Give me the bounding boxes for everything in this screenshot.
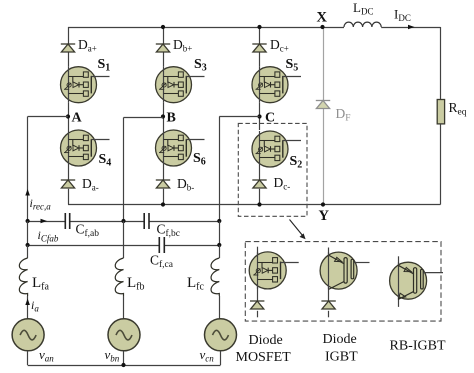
- arrow i_Cfab: [41, 219, 48, 224]
- node A: [66, 114, 70, 118]
- wire phase-b branch row1 to coil: [123, 221, 125, 258]
- svg-text:B: B: [167, 111, 176, 126]
- wire Lfa to source van: [27, 296, 29, 319]
- diode Dc-: [252, 180, 266, 188]
- arrow from S2 box to legend: [290, 220, 304, 237]
- transistor S2 (diode MOSFET): [252, 131, 301, 167]
- legend diode MOSFET symbol: [257, 247, 259, 301]
- node Y: [321, 202, 325, 206]
- source vbn: [108, 319, 140, 351]
- svg-text:MOSFET: MOSFET: [236, 350, 292, 365]
- transistor S5 (diode MOSFET): [252, 67, 301, 103]
- wire capacitor row 2: [28, 245, 160, 247]
- junction dot bottom rail at vbn: [121, 363, 125, 367]
- transistor S4 (diode MOSFET): [61, 130, 110, 166]
- wire node C to filter branch c: [219, 116, 259, 118]
- node X: [320, 25, 324, 29]
- source vcn: [205, 319, 237, 351]
- wire top DC rail (right of L_DC): [381, 27, 440, 29]
- source van: [12, 319, 44, 351]
- wire node B to filter branch b: [124, 117, 164, 119]
- wire phase-b leg: [163, 27, 165, 44]
- diode Db-: [156, 180, 170, 188]
- svg-text:X: X: [317, 10, 328, 26]
- wire bottom DC rail: [68, 204, 441, 206]
- wire bottom source rail: [28, 365, 221, 367]
- diode DF: [316, 101, 330, 109]
- node B: [161, 114, 165, 118]
- diode Da+: [61, 44, 75, 52]
- wire freewheel branch X to Y (gray): [323, 27, 325, 101]
- junction dot bottom rail at B: [161, 202, 165, 206]
- wire phase-a branch row1 to row2: [27, 221, 29, 245]
- wire phase-c branch row1 to row2: [219, 221, 221, 245]
- wire source bottoms to bottom rail: [27, 351, 29, 365]
- wire Lfb to source vbn: [123, 296, 125, 319]
- junction dots row 2: [26, 243, 30, 247]
- wire right side vertical (top): [440, 27, 442, 100]
- dashed box around S2: [238, 123, 307, 216]
- wire right side vertical (bottom): [440, 124, 442, 205]
- arrow i_rec,a: [25, 189, 30, 196]
- inductor L_DC: [344, 22, 381, 27]
- wire phase-a row2 to coil: [27, 245, 29, 258]
- svg-text:RB-IGBT: RB-IGBT: [390, 339, 446, 354]
- junction dot top rail at B: [161, 25, 165, 29]
- legend diode IGBT symbol: [328, 248, 330, 302]
- arrow i_a: [25, 299, 30, 306]
- inductor Lfc: [211, 258, 219, 296]
- wire Lfc to source vcn: [219, 296, 221, 319]
- junction dot top rail at C: [257, 25, 261, 29]
- capacitor Cf,ab: [65, 213, 69, 229]
- junction dot bottom rail at C: [257, 202, 261, 206]
- node C: [257, 114, 261, 118]
- wire phase-c row2 to coil: [219, 245, 221, 258]
- transistor S6 (diode MOSFET): [156, 130, 205, 166]
- transistor S1 (diode MOSFET): [61, 67, 110, 103]
- wire phase-c leg: [259, 27, 261, 44]
- arrow I_DC: [408, 25, 415, 30]
- diode Da-: [61, 180, 75, 188]
- wire top DC rail (left of L_DC): [68, 27, 344, 29]
- svg-text:IGBT: IGBT: [325, 350, 358, 365]
- wire phase-a leg: [68, 27, 70, 44]
- legend RB-IGBT symbol: [398, 256, 400, 307]
- capacitor Cf,bc: [144, 213, 149, 229]
- transistor S3 (diode MOSFET): [156, 67, 205, 103]
- inductor Lfa: [19, 258, 27, 296]
- svg-text:Diode: Diode: [323, 332, 357, 347]
- diode Db+: [156, 44, 170, 52]
- wire node A to filter branch a: [28, 116, 68, 118]
- resistor Req: [437, 100, 444, 124]
- diode Dc+: [252, 44, 266, 52]
- capacitor Cf,ca: [159, 237, 164, 253]
- wire capacitor row 1: [28, 221, 66, 223]
- inductor Lfb: [115, 258, 123, 296]
- junction dots row 1: [26, 219, 30, 223]
- svg-text:A: A: [72, 111, 83, 126]
- legend dashed box: [245, 242, 441, 322]
- svg-text:Y: Y: [319, 208, 330, 224]
- svg-text:Diode: Diode: [249, 333, 283, 348]
